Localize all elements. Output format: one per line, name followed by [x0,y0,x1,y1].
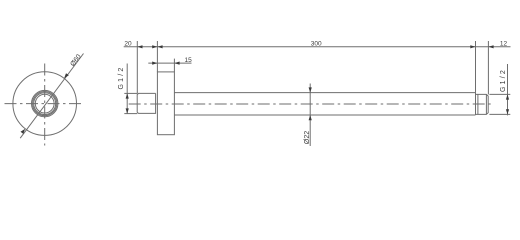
arrow G12 right top [506,94,509,99]
arrow G12 left top [126,93,129,98]
extension line nipple left [136,41,138,93]
svg-text:Ø22: Ø22 [304,131,311,144]
extension line pipe right shoulder [475,41,477,93]
right G1/2 extension bottom [489,113,510,115]
pipe shoulder [475,93,477,115]
right thread chamfer line [485,94,487,114]
right G1/2 extension top [489,93,510,95]
svg-text:G1/2: G1/2 [500,68,507,92]
pipe top line [174,92,475,94]
arrow dim20 right [152,45,157,48]
left G1/2 extension top [124,92,137,94]
arrow dia60 lower [21,129,26,134]
svg-text:20: 20 [124,41,132,48]
right thread outline [476,94,489,114]
svg-text:12: 12 [500,41,508,48]
left view horizontal centerline [5,103,85,105]
left view bore circle [35,94,54,113]
chain dimension line [124,46,511,48]
arrow dia22 top [309,87,312,92]
arrow dia22 bottom [309,115,312,120]
diameter dimension line [20,54,83,139]
svg-text:15: 15 [184,57,192,64]
arrow dim300 right [470,45,475,48]
right thread line 1 [477,94,479,114]
left G1/2 dimension line [126,64,128,114]
pipe centerline [129,103,494,105]
svg-text:Ø60: Ø60 [69,53,82,68]
svg-text:300: 300 [311,40,322,47]
arrow G12 left bottom [126,108,129,113]
dia 22 dimension line [309,84,311,147]
dim 15 line [148,62,191,64]
left view thread ring 2 [33,92,57,116]
arrow dia60 upper [64,73,69,78]
arrow G12 right bottom [506,109,509,114]
arrow dim300 left [157,45,162,48]
right G1/2 dimension line [507,64,509,115]
extension line flange right [173,59,175,72]
arrow dim12 right [488,45,493,48]
extension line flange left [156,41,158,72]
extension line pipe end [487,41,489,94]
arrow dim20 left [137,45,142,48]
left view outer circle [13,72,77,136]
arrow dim15 left [152,62,157,65]
left view thread ring 1 [32,90,58,116]
left G1/2 extension bottom [124,113,137,115]
flange rectangle [157,72,174,135]
pipe bottom line [174,114,475,116]
left view vertical centerline [44,64,46,146]
left view thread ring 3 [34,93,56,115]
svg-text:G1/2: G1/2 [118,66,125,90]
nipple body [137,93,155,113]
arrow dim15 right [174,62,179,65]
